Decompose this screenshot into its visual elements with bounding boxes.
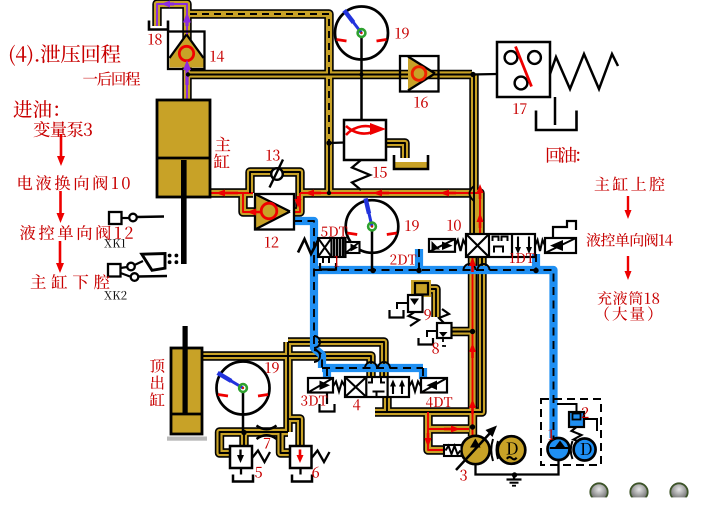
pilot relief valve 9 (408, 295, 423, 312)
pipe: down to relief valve 5 (center line) (243, 432, 245, 446)
label 3 (460, 470, 467, 481)
ejector cylinder (ding chu gang) (171, 326, 202, 434)
pilot-operated check valve 14 (168, 32, 205, 70)
pipe: loop at relief valve 5 (center line) (220, 432, 245, 453)
pipe: compensator branch to pump line (center line) (428, 428, 469, 430)
pipe: valve 10 return line down and left to valve 4 drain (center line) (375, 257, 482, 412)
pipe: valve 10 return line down and left to valve 4 drain (oil) (375, 257, 482, 412)
pipe: valve 4 bottom stub (center line) (386, 397, 388, 412)
label 13 (266, 150, 279, 161)
pilot pipe: valve 12 pilot down to ejector valve line (294, 221, 322, 368)
pressure gauge 19 middle (346, 198, 399, 270)
pipe: loop at relief valve 6 (center line) (281, 432, 291, 453)
coupling pump1-motor (571, 441, 573, 459)
purple flow arrows at valve 14 (161, 1, 191, 86)
valve 1 spring (298, 239, 318, 254)
pipe: valve 8 outlet to pump line (outline) (451, 327, 473, 336)
pressure gauge 19 ejector (217, 362, 270, 434)
spring of valve 17 (550, 54, 618, 89)
pipe: upper main line to check valve 16 (center line) (188, 74, 472, 76)
valve 10 left solenoid (429, 239, 455, 252)
pipe: pump 3 pressure line (flow up into valve 10) (center line) (472, 257, 474, 436)
pipe: pump 3 pressure line (flow up into valve 10) (oil) (469, 257, 475, 436)
pilot pipe: stub to solenoid 4DT (419, 368, 427, 379)
pipe: check valve 14 to main cylinder top (purple flow) (outline) (182, 69, 191, 100)
pipe: valve 12 left port up to main line (center line) (243, 193, 256, 212)
valve 4 right solenoid (4DT) (421, 378, 447, 393)
pipe: check valve 14 to main cylinder top (purple flow) (oil) (184, 69, 190, 100)
label valve 14 flow (586, 233, 672, 247)
pipe: ejector cylinder port to valve 4 port A (center line) (202, 356, 371, 377)
check valve 13 (270, 160, 284, 188)
pipe: check valve 14 to main cylinder top (purple flow) (center line) (186, 69, 188, 100)
pipe: ejector upper line to valve 4 port B (oil) (288, 342, 384, 377)
pipe: main cylinder lower port line (flow left) (oil) (210, 190, 253, 196)
pipe: upper line down into valve 10 top (center line) (473, 75, 475, 235)
coupling between pump 3 and motor (491, 439, 498, 461)
label cylinder lower (31, 274, 110, 289)
pipe: upper main line to check valve 16 (oil) (188, 71, 472, 77)
pipe: upper line down into valve 10 top (oil) (471, 75, 477, 235)
pipe: charge-tank to check valve 14 (purple flow) (center line) (157, 4, 187, 31)
main cylinder (zhu gang) (157, 100, 210, 264)
label cylinder upper (595, 177, 665, 192)
pipe: pilot line from valve 14 (dashed) (outline) (190, 14, 329, 143)
red flow arrows at pump compensator branch (425, 426, 461, 448)
variable displacement pump 3 (461, 436, 489, 464)
pipe: mid main line from valve 10 port A (flow toward valve 12) (oil) (300, 193, 480, 234)
pipe: into pilot check valve 12 right port (outline) (294, 193, 300, 212)
pilot line hop over pump lines (464, 264, 490, 270)
valve 9 spring (409, 312, 420, 326)
pilot pipe: 2DT stub (dashed center) (418, 249, 420, 270)
label XK2 (104, 291, 126, 300)
label 4DT (426, 397, 452, 407)
label main cylinder char 2 (214, 154, 229, 169)
pipe: pilot line from valve 14 (dashed) (center line) (190, 14, 329, 143)
pipe elbow block above valve 9 (411, 280, 431, 297)
pipe: through check valve 14 (purple flow) (center line) (186, 31, 188, 69)
valve 5 tank (240, 468, 242, 475)
pipe: branch to pump compensator (oil) (428, 412, 445, 450)
pilot link to relief valve 15 (329, 141, 345, 144)
tank below valve 17 (554, 97, 557, 125)
pipe: valve 10 return line down and left to valve 4 drain (outline) (375, 257, 482, 412)
pipe: through check valve 14 (purple flow) (oil) (184, 31, 190, 69)
motor of auxiliary pump 1 (574, 439, 596, 461)
label 2DT (390, 254, 416, 264)
pipe: ejector cylinder port to valve 4 port A (oil) (202, 356, 371, 377)
pipe: line through throttle 7 (center line) (244, 431, 288, 433)
label 19 (265, 362, 278, 373)
label 1DT (510, 253, 535, 263)
label 3DT (301, 395, 327, 405)
valve 4 right spring (409, 382, 421, 392)
subtitle text (83, 71, 140, 85)
label 14 (210, 51, 224, 62)
pipe: line through throttle 7 (oil) (244, 429, 288, 435)
pilot pipe: control oil main line to auxiliary pump 1 (314, 270, 554, 438)
pipe: mid main line from valve 10 port A (flow toward valve 12) (center line) (300, 193, 480, 234)
pipe: main cylinder lower port line (flow left) (outline) (210, 188, 253, 197)
exhaust/prefill valve 17 (497, 42, 550, 97)
pipe: ejector branch down to back-pressure valves (oil) (285, 342, 291, 432)
back-pressure valve 6 (flow highlighted) (290, 446, 312, 468)
pipe: loop at relief valve 6 (oil) (281, 432, 291, 453)
pipe: charge-tank to check valve 14 (purple flow) (outline) (157, 4, 187, 31)
pipe: branch to pump compensator (center line) (428, 412, 445, 450)
valve 8 spring (439, 309, 449, 323)
label 16 (414, 97, 427, 108)
label XK1 (104, 239, 125, 248)
back-pressure valve 5 (230, 446, 252, 468)
pipe: branch to relief valve 6 (center line) (288, 419, 300, 446)
cam dots (168, 254, 179, 265)
label 7 (264, 438, 270, 449)
label 8 (432, 343, 439, 354)
pipe: charge-tank to check valve 14 (purple flow) (oil) (157, 4, 187, 31)
pilot relief valve 8 (437, 323, 452, 338)
label 9 (424, 309, 431, 320)
aux motor D letter (581, 443, 592, 455)
label 2 (582, 407, 589, 418)
pipe: valve 4 bottom stub (outline) (382, 397, 391, 412)
label pump 3 flow (34, 121, 92, 137)
pipe: valve 9 to valve 8 link (center line) (423, 289, 436, 317)
relief valve 2 of auxiliary pump (557, 404, 597, 442)
pump suction lines (476, 459, 559, 480)
aux pump unit dashed enclosure (541, 399, 601, 465)
pipe: bypass loop via check valve 13 (center line) (250, 172, 300, 193)
label valve 10 flow (18, 175, 129, 190)
pilot pipe: stub to valve 10 right solenoid (532, 254, 540, 270)
label valve 12 flow (20, 225, 133, 240)
solenoid valve 1 (5DT) (318, 238, 360, 257)
valve 6 tank (299, 468, 301, 475)
label 15 (373, 167, 386, 178)
pipe: pump 3 pressure line (flow up into valve 10) (outline) (468, 257, 477, 436)
label 12 (265, 237, 278, 248)
red flow arrows on main lower line (216, 190, 456, 197)
pilot pipe: stub to solenoid 3DT (323, 368, 331, 379)
directional valve 10 body (466, 234, 535, 257)
pipe: mid main line from valve 10 port A (flow toward valve 12) (outline) (300, 193, 480, 234)
label ejector char 3 (150, 392, 165, 406)
ejector cylinder shadow (167, 437, 207, 441)
limit switch XK1 (109, 212, 164, 224)
pipe: ejector upper line to valve 4 port B (center line) (288, 342, 384, 377)
pipe: upper line down into valve 10 top (outline) (469, 75, 478, 235)
red flow arrows at valve 12 (247, 196, 302, 216)
label 5 (255, 467, 262, 478)
valve 10 right solenoid (545, 238, 576, 253)
limit switch XK2 (108, 254, 167, 281)
pipe: pilot line from valve 14 (dashed) (oil) (190, 14, 329, 143)
pipe: pilot vertical to main lower line (center line) (328, 143, 330, 193)
relief valve 15 spring (352, 160, 370, 190)
pilot line hops over valve 4 risers (365, 362, 390, 368)
pump 3 compensator spring box (444, 445, 462, 456)
motor D letter (507, 442, 518, 454)
pipe: bypass loop via check valve 13 (oil) (250, 172, 300, 193)
pipe: relief valve 15 drain to tank (outline) (386, 143, 405, 158)
pilot pipe: 2DT stub (415, 249, 423, 270)
pipe: valve 4 bottom stub (oil) (384, 397, 390, 412)
label 17 (513, 103, 526, 114)
throttle valve 7 (257, 426, 277, 440)
guide arrows left column (56, 134, 65, 273)
pipe: main cylinder lower port line (flow left) (center line) (210, 192, 253, 194)
pipe: upper main line to check valve 16 (outline) (188, 70, 472, 79)
pilot-operated check valve 12 (255, 194, 294, 230)
pilot pipe: control oil main line to auxiliary pump 1 (dashed center) (314, 270, 554, 438)
valve 4 left spring (333, 382, 345, 392)
pipe: valve 9 to valve 8 link (outline) (423, 289, 436, 317)
pipe: relief valve 15 drain to tank (oil) (386, 143, 405, 158)
tank of relief valve 15 (395, 162, 427, 168)
pipe: down to relief valve 5 (oil) (241, 432, 247, 446)
pipe: through check valve 14 (purple flow) (outline) (182, 31, 191, 69)
label large amount (605, 306, 653, 321)
relief valve 15 (344, 120, 386, 160)
label hui-you (547, 147, 580, 163)
label 19 (395, 28, 408, 39)
pipe: down to relief valve 5 (outline) (239, 432, 248, 446)
label main cylinder char 1 (215, 137, 230, 151)
title text (10, 44, 121, 66)
link line to exhaust valve 17 (471, 73, 497, 76)
suction tank symbol (507, 480, 522, 486)
label 5DT (321, 227, 347, 237)
electric motor of pump 3 (498, 436, 526, 464)
pipe: valve 8 outlet to pump line (center line) (451, 331, 473, 333)
pipe: ejector branch down to back-pressure valves (center line) (287, 342, 289, 432)
pipe: loop at relief valve 5 (oil) (220, 432, 245, 453)
pipe: ejector cylinder port to valve 4 port A (outline) (202, 356, 371, 377)
pilot pipe: stub to solenoid 4DT (dashed center) (422, 368, 424, 379)
valve 6 spring (312, 451, 330, 463)
label 19 (405, 220, 418, 231)
valve 9 drain tank (397, 303, 408, 309)
valve 8 vent dashes (443, 338, 449, 346)
auxiliary pump 1 (548, 438, 571, 460)
pipe: valve 8 outlet to pump line (oil) (451, 328, 473, 334)
pilot pipe: 3DT-4DT control line (322, 364, 423, 372)
valve 10 left spring (455, 240, 466, 251)
pipe: compensator branch to pump line (oil) (428, 426, 469, 432)
pipe: valve 12 left port up to main line (oil) (243, 193, 256, 212)
label 10 (447, 220, 460, 231)
upper line hop over main lower line (470, 186, 475, 201)
pilot pipe: valve 12 pilot down to ejector valve line (dashed center) (294, 221, 322, 368)
pilot pipe: 3DT-4DT control line (dashed center) (322, 367, 423, 369)
pressure gauge 19 top (335, 7, 388, 121)
charge tank 18 symbol (149, 21, 168, 30)
label charge tank flow (598, 291, 660, 305)
pipe: branch to pump compensator (outline) (428, 412, 445, 450)
pipe: into pilot check valve 12 right port (oil) (294, 193, 300, 212)
pipe: pilot vertical to main lower line (outline) (324, 143, 333, 193)
pipe: branch to relief valve 6 (outline) (288, 419, 300, 446)
pilot pipe: stub to solenoid 3DT (dashed center) (326, 368, 328, 379)
pipe: relief valve 15 drain to tank (center line) (386, 143, 405, 158)
pump 3 variable arrow (456, 426, 497, 471)
pipe: loop at relief valve 6 (outline) (281, 432, 291, 453)
label 1 (334, 256, 339, 267)
label ejector char 1 (150, 359, 164, 373)
pipe: valve 9 to valve 8 link (oil) (423, 289, 436, 317)
valve 8 drain tank (427, 331, 437, 337)
pilot pipe: stub to valve 10 right solenoid (dashed center) (535, 254, 537, 270)
pipe: ejector upper line to valve 4 port B (outline) (288, 342, 384, 377)
pipe: branch to relief valve 6 (oil) (288, 419, 300, 446)
pipe: pilot vertical to main lower line (oil) (326, 143, 332, 193)
label 4 (353, 399, 360, 410)
directional valve 4 body (345, 377, 409, 397)
pilot line hops over ejector lines (314, 336, 320, 362)
pipe: line through throttle 7 (outline) (244, 427, 288, 436)
label jin-you (14, 100, 59, 118)
check valve 16 (400, 56, 439, 92)
valve 5 spring (252, 451, 270, 463)
3DT solenoid drain tank (326, 393, 328, 405)
red flow arrows on pump pressure line (469, 184, 484, 414)
decorative button spheres (580, 483, 703, 509)
label 18 (148, 34, 161, 45)
pipe: into pilot check valve 12 right port (center line) (294, 193, 300, 212)
valve 10 right spring (535, 240, 545, 251)
valve 1 drain tank (322, 257, 324, 263)
pipe: bypass loop via check valve 13 (outline) (250, 172, 300, 193)
valve 10 pilot drain hook (553, 221, 576, 238)
label 6 (312, 467, 319, 478)
pipe: ejector branch down to back-pressure valves (outline) (283, 342, 292, 432)
valve 4 left solenoid (3DT) (308, 378, 333, 393)
pipe: compensator branch to pump line (outline) (428, 424, 469, 433)
label ejector char 2 (151, 376, 164, 390)
label 1 (548, 429, 553, 440)
pipe: valve 12 left port up to main line (outline) (243, 193, 256, 212)
pipe: loop at relief valve 5 (outline) (220, 432, 245, 453)
guide arrows right column (625, 196, 632, 280)
